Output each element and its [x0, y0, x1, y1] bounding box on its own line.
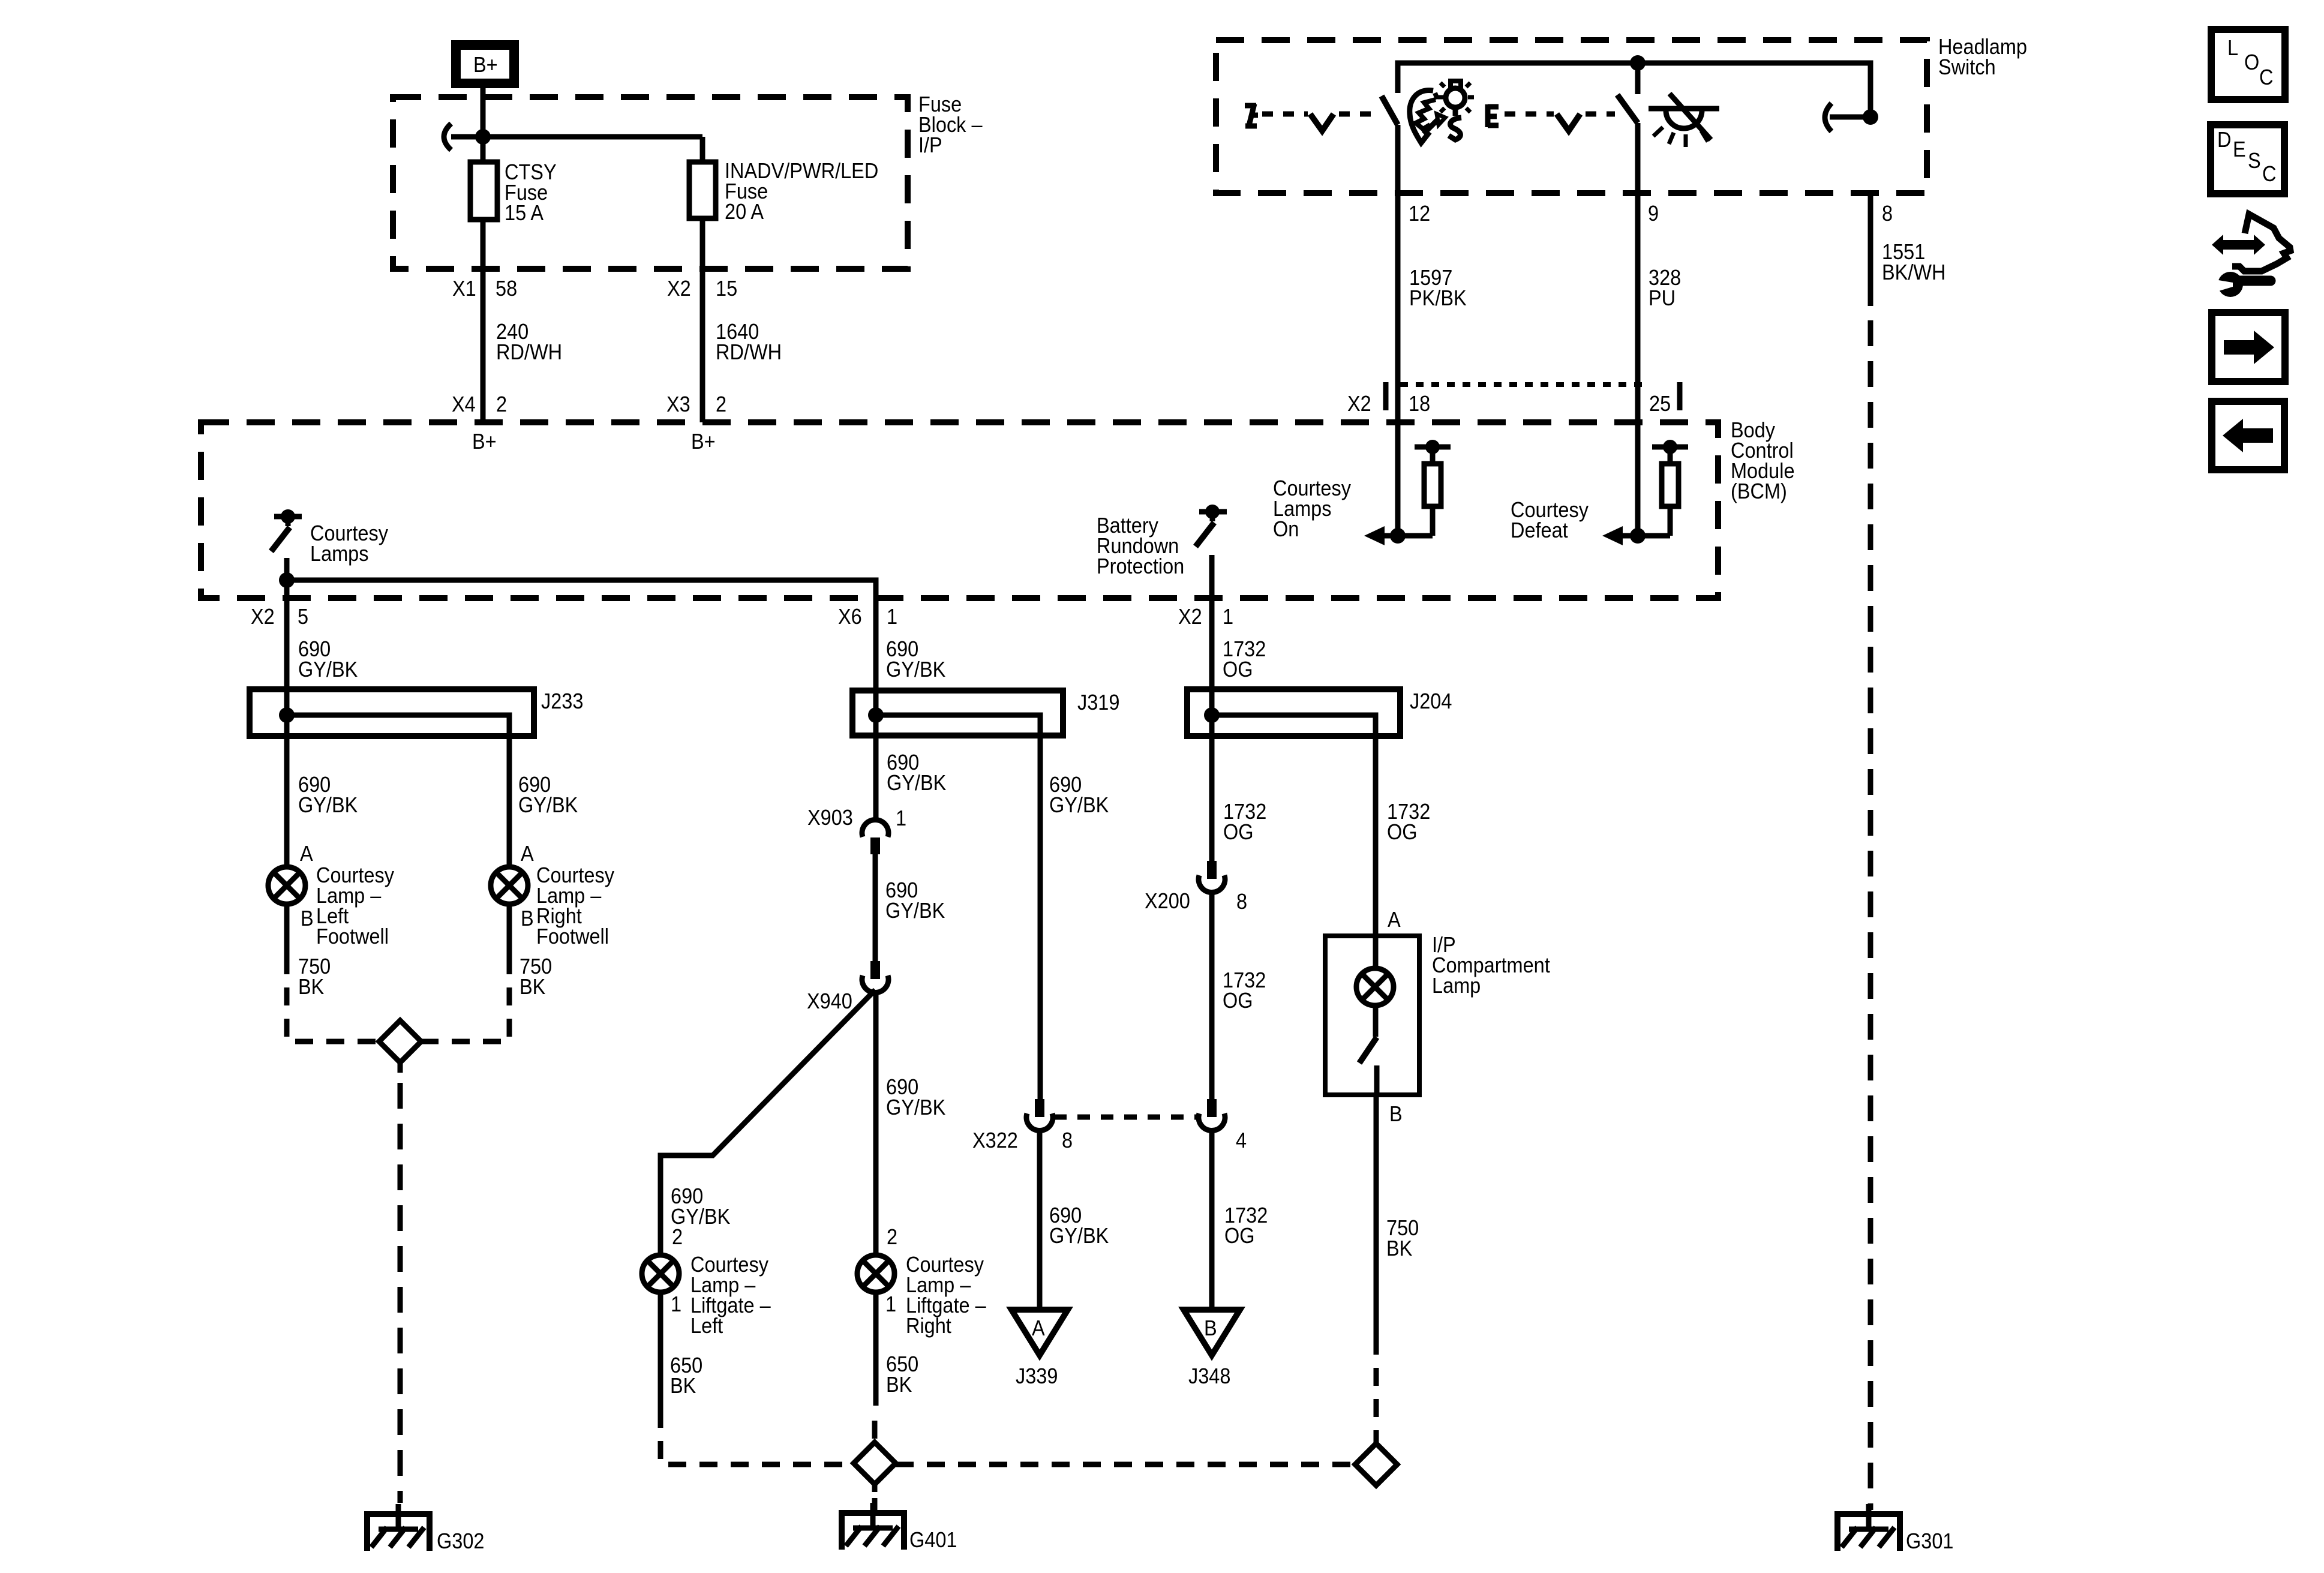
svg-text:1: 1: [1223, 605, 1233, 629]
pin B left footwell: [301, 906, 314, 930]
component box: Fuse Block - I/P: [393, 92, 983, 269]
inline connector X322 pin 8: [972, 1099, 1073, 1152]
wire X322-4 to J348 triangle: [1209, 1128, 1215, 1310]
svg-text:B: B: [301, 906, 314, 930]
pin B right footwell: [521, 906, 534, 930]
pin 8: [1882, 202, 1893, 226]
svg-text:E: E: [2233, 137, 2246, 161]
wire X2-1 to J204: [1209, 598, 1215, 689]
wire hook to pin 8 leg: [1830, 115, 1870, 120]
pin 1 left liftgate: [671, 1292, 681, 1316]
wire right liftgate ground lead: [873, 1292, 879, 1406]
wire X2-5 to J233: [284, 598, 290, 689]
svg-text:BK: BK: [298, 975, 324, 999]
svg-text:A: A: [1032, 1316, 1045, 1340]
wire label 1640 RD/WH: [716, 320, 782, 364]
fuse block internal bus wire: [451, 137, 702, 162]
wire fuse F2 to X2-15: [700, 218, 705, 422]
wire label 690 GY/BK left liftgate: [671, 1184, 730, 1229]
off-page triangle A: [1011, 1310, 1068, 1355]
svg-text:BK/WH: BK/WH: [1882, 260, 1945, 284]
switch position glyph OFF: [1245, 104, 1258, 128]
svg-text:GY/BK: GY/BK: [298, 793, 358, 817]
wire label 328 PU: [1649, 266, 1681, 310]
switch blade pin 12: [1382, 96, 1398, 125]
wire B+ to fuse block: [481, 86, 486, 162]
power feed B+ terminal: [456, 45, 514, 83]
fuse F1 CTSY 15 A: [470, 160, 557, 225]
wire compartment lamp ground lead: [1374, 1095, 1379, 1337]
svg-text:8: 8: [1236, 890, 1247, 914]
label Courtesy Lamps On: [1273, 476, 1352, 541]
pin X2 1: [1178, 605, 1233, 629]
wire left footwell lamp ground lead: [284, 904, 290, 956]
wire label 690 GY/BK right liftgate: [886, 1075, 945, 1119]
svg-text:2: 2: [496, 392, 507, 416]
svg-text:BK: BK: [1386, 1236, 1412, 1260]
svg-text:GY/BK: GY/BK: [885, 899, 945, 923]
dashed ground harness right footwell: [421, 956, 509, 1041]
wire pin 25 into BCM: [1635, 422, 1641, 536]
wire J319 right branch down: [1038, 736, 1043, 1099]
svg-text:X6: X6: [838, 605, 862, 629]
terminal hook pin 8: [1825, 103, 1831, 131]
svg-text:X4: X4: [452, 392, 476, 416]
svg-text:OG: OG: [1223, 658, 1253, 682]
svg-text:2: 2: [672, 1225, 683, 1249]
wire X903 to X940: [873, 854, 878, 961]
instrument illumination icon: [1410, 81, 1474, 143]
svg-text:(BCM): (BCM): [1731, 479, 1787, 503]
wire J204 right branch to compartment lamp: [1373, 736, 1379, 936]
fuse F2 INADV/PWR/LED 20 A: [689, 159, 878, 224]
svg-text:9: 9: [1648, 202, 1659, 226]
wire J233 to right footwell lamp: [507, 736, 512, 867]
pin B compartment lamp: [1389, 1102, 1403, 1126]
svg-text:X2: X2: [251, 605, 275, 629]
svg-text:G401: G401: [909, 1528, 957, 1552]
BCM driver switch Battery Rundown Protection: [1196, 505, 1227, 598]
splice J319: [852, 691, 1119, 736]
dashed ground wire to G302: [398, 1062, 403, 1503]
svg-text:12: 12: [1409, 202, 1430, 226]
wire pin 12 out of switch: [1395, 125, 1401, 422]
label Battery Rundown Protection: [1097, 514, 1184, 578]
svg-text:1: 1: [671, 1292, 681, 1316]
net label B+ at X4: [472, 430, 497, 454]
pin 1 right liftgate: [885, 1292, 896, 1316]
svg-text:X2: X2: [1347, 392, 1371, 416]
dashed connector link X322: [1054, 1115, 1198, 1120]
splice J204: [1187, 689, 1452, 736]
svg-text:C: C: [2259, 65, 2273, 89]
net label B+ at X3: [691, 430, 716, 454]
svg-text:C: C: [2262, 162, 2276, 186]
node: junction Courtesy Lamps output: [279, 572, 295, 588]
component box: Headlamp Switch: [1216, 35, 2027, 193]
sidebar previous-page button: [2212, 401, 2284, 470]
svg-text:X1: X1: [452, 277, 476, 301]
svg-text:X200: X200: [1145, 889, 1190, 913]
svg-text:20 A: 20 A: [725, 200, 764, 224]
wire right footwell lamp ground lead: [507, 904, 512, 956]
inline connector X322 pin 4: [1199, 1099, 1247, 1152]
splice diamond G401 harness: [854, 1442, 896, 1484]
wire fuse F1 to X1-58: [481, 220, 486, 422]
svg-text:4: 4: [1236, 1128, 1247, 1152]
svg-text:On: On: [1273, 517, 1299, 541]
wire X322-8 to J339 triangle: [1037, 1128, 1043, 1310]
svg-text:RD/WH: RD/WH: [496, 340, 562, 364]
svg-text:O: O: [2244, 50, 2259, 74]
svg-text:L: L: [2227, 36, 2238, 60]
svg-text:Left: Left: [690, 1314, 723, 1338]
svg-text:I/P: I/P: [918, 133, 942, 157]
dome lamp defeat icon: [1649, 94, 1719, 147]
connector X2 bracket at BCM: [1347, 382, 1680, 416]
pin A left footwell: [300, 842, 313, 866]
node: junction pin 25: [1630, 528, 1646, 544]
svg-text:GY/BK: GY/BK: [886, 658, 945, 682]
svg-text:B+: B+: [473, 53, 498, 77]
pin X3 2: [666, 392, 726, 416]
wire label 690 GY/BK between connectors: [885, 878, 945, 923]
label Courtesy Defeat: [1511, 498, 1589, 542]
pin X2 15: [667, 277, 737, 301]
svg-text:GY/BK: GY/BK: [887, 771, 946, 795]
svg-text:8: 8: [1882, 202, 1893, 226]
wire label 690 GY/BK to J339: [1049, 1203, 1109, 1248]
svg-text:Footwell: Footwell: [316, 924, 389, 948]
node: junction pin 8 leg: [1863, 109, 1878, 125]
svg-text:25: 25: [1649, 392, 1671, 416]
dashed wire into G401 diamond: [872, 1421, 878, 1442]
wire J319 to X903: [873, 736, 879, 822]
wire label 690 GY/BK right: [518, 773, 578, 817]
ground G302: [364, 1504, 484, 1553]
wire pin 18 into BCM: [1395, 422, 1401, 536]
wire label 690 GY/BK left: [298, 773, 358, 817]
svg-text:X322: X322: [972, 1128, 1018, 1152]
pin 12: [1409, 202, 1430, 226]
svg-text:X940: X940: [807, 989, 852, 1013]
compartment lamp internals: [1356, 936, 1394, 1095]
svg-text:B: B: [1389, 1102, 1403, 1126]
svg-text:G302: G302: [437, 1529, 484, 1553]
svg-text:8: 8: [1062, 1128, 1073, 1152]
selector dashed chain 2: [1586, 112, 1615, 117]
svg-text:A: A: [521, 842, 534, 866]
selector dashed chain right: [1505, 112, 1554, 117]
signal arrow Courtesy Defeat: [1602, 526, 1623, 545]
BCM pullup resistor at pin 25: [1652, 440, 1688, 536]
pin 2 right liftgate: [887, 1225, 897, 1249]
wire internal pin 18 to comparator: [1382, 533, 1433, 539]
BCM pullup resistor at pin 18: [1415, 440, 1451, 536]
wire J204 to X200: [1209, 736, 1215, 861]
svg-text:X2: X2: [1178, 605, 1202, 629]
svg-text:2: 2: [887, 1225, 897, 1249]
svg-text:Footwell: Footwell: [536, 924, 609, 948]
svg-text:J339: J339: [1016, 1364, 1058, 1388]
svg-text:OG: OG: [1224, 1224, 1255, 1248]
svg-text:B: B: [1204, 1316, 1217, 1340]
svg-text:5: 5: [298, 605, 308, 629]
wire label 1732 OG to J348: [1224, 1203, 1268, 1248]
svg-text:PU: PU: [1649, 286, 1676, 310]
wire label 750 BK right: [520, 954, 552, 999]
wire label 1551 BK/WH: [1882, 240, 1945, 284]
wire label 690 GY/BK: [298, 637, 358, 682]
wire label 1732 OG below X200: [1223, 968, 1266, 1013]
svg-text:A: A: [1388, 908, 1401, 932]
svg-text:J233: J233: [541, 689, 583, 713]
signal arrow Courtesy Lamps On: [1364, 526, 1385, 545]
net label J339: [1016, 1364, 1058, 1388]
ground G301: [1834, 1504, 1953, 1553]
svg-text:G301: G301: [1906, 1529, 1953, 1553]
svg-text:A: A: [300, 842, 313, 866]
pin X4 2: [452, 392, 507, 416]
wire label 650 BK right: [886, 1352, 918, 1397]
lamp: Courtesy Lamp - Liftgate - Left: [642, 1253, 771, 1338]
component box: I/P Compartment Lamp: [1325, 933, 1550, 1095]
pin 9: [1648, 202, 1659, 226]
svg-text:GY/BK: GY/BK: [1049, 1224, 1109, 1248]
svg-text:GY/BK: GY/BK: [886, 1095, 945, 1119]
component box: Body Control Module (BCM): [201, 418, 1795, 598]
switch blade pin 9: [1617, 95, 1638, 123]
lamp: Courtesy Lamp - Right Footwell: [491, 863, 615, 948]
svg-text:1: 1: [885, 1292, 896, 1316]
wire label 650 BK left: [670, 1353, 702, 1398]
svg-text:GY/BK: GY/BK: [518, 793, 578, 817]
svg-text:1: 1: [896, 806, 906, 830]
BCM driver switch Courtesy Lamps: [271, 509, 302, 598]
svg-text:OG: OG: [1387, 820, 1418, 844]
lamp: Courtesy Lamp - Liftgate - Right: [857, 1253, 986, 1338]
svg-text:15 A: 15 A: [505, 201, 544, 225]
svg-text:J319: J319: [1077, 691, 1119, 715]
pin 2 left liftgate: [672, 1225, 683, 1249]
splice diamond right harness: [1355, 1443, 1397, 1485]
inline connector X200 pin 8: [1145, 861, 1247, 914]
svg-text:Defeat: Defeat: [1511, 518, 1568, 542]
lamp: Courtesy Lamp - Left Footwell: [268, 863, 395, 948]
node: bus junction at pin 9 leg: [1630, 55, 1646, 71]
wire label 690 GY/BK branch: [1049, 773, 1109, 817]
wire pin 8 solid segment: [1868, 193, 1873, 306]
switch position glyph E: [1488, 104, 1499, 127]
svg-text:Protection: Protection: [1097, 554, 1184, 578]
wire internal pin 25 to comparator: [1620, 533, 1670, 539]
selector check glyph: [1310, 114, 1334, 131]
wire label 240 RD/WH: [496, 320, 562, 364]
pin X2 5: [251, 605, 308, 629]
inline connector X903 pin 1: [807, 806, 906, 854]
svg-text:B+: B+: [472, 430, 497, 454]
wire label 690 GY/BK X6: [886, 637, 945, 682]
wire left liftgate ground lead: [658, 1292, 663, 1410]
svg-text:X3: X3: [666, 392, 690, 416]
sidebar next-page button: [2212, 313, 2285, 382]
label Courtesy Lamps: [310, 521, 389, 566]
wire label 1732 OG X2-1: [1223, 637, 1266, 682]
svg-text:J204: J204: [1410, 689, 1452, 713]
svg-text:RD/WH: RD/WH: [716, 340, 782, 364]
wire J233 to left footwell lamp: [284, 736, 290, 867]
svg-text:PK/BK: PK/BK: [1409, 286, 1467, 310]
svg-text:X903: X903: [807, 806, 853, 830]
svg-text:OG: OG: [1223, 989, 1253, 1013]
pin A right footwell: [521, 842, 534, 866]
selector check glyph 2: [1557, 114, 1580, 131]
pin X6 1: [838, 605, 897, 629]
dashed ground bus to right diamond: [896, 1462, 1355, 1467]
node: junction pin 18: [1390, 528, 1406, 544]
headlamp switch internal bus: [1398, 63, 1870, 117]
svg-text:Right: Right: [906, 1314, 951, 1338]
dashed ground wire to G401: [872, 1484, 878, 1510]
dashed ground harness left footwell: [287, 956, 379, 1041]
sidebar LOC button: [2211, 29, 2285, 100]
svg-text:Switch: Switch: [1938, 55, 1996, 79]
pin A compartment lamp: [1388, 908, 1401, 932]
sidebar DESC button: [2211, 125, 2284, 194]
terminal hook on bus: [444, 124, 451, 150]
selector dashed chain: [1339, 112, 1379, 117]
wire X6-1 to J319: [873, 598, 879, 691]
wire pin 9 out of switch: [1635, 123, 1641, 422]
svg-text:18: 18: [1409, 392, 1430, 416]
off-page triangle B: [1184, 1310, 1240, 1355]
svg-text:J348: J348: [1188, 1364, 1230, 1388]
wire branch X940 to left liftgate lamp: [660, 990, 875, 1255]
ground G401: [839, 1503, 957, 1552]
wire label 750 BK left: [298, 954, 331, 999]
svg-text:BK: BK: [520, 975, 545, 999]
svg-text:X2: X2: [667, 277, 691, 301]
inline connector X940: [807, 961, 888, 1013]
svg-text:1: 1: [887, 605, 897, 629]
svg-text:GY/BK: GY/BK: [298, 658, 358, 682]
wire label 1732 OG lamp branch: [1387, 800, 1430, 844]
svg-text:D: D: [2217, 128, 2231, 152]
splice J233: [250, 689, 583, 736]
selector dashed chain left: [1262, 112, 1308, 117]
wire bus to pin 9 contact: [1635, 63, 1641, 94]
dashed wire into right diamond: [1374, 1337, 1379, 1443]
svg-text:BK: BK: [886, 1373, 912, 1397]
sidebar vehicle navigation icon: [2212, 214, 2290, 297]
svg-text:58: 58: [496, 277, 517, 301]
BCM internal wire to X6 output: [287, 580, 876, 598]
wire pin 8 dashed run to G301: [1868, 320, 1873, 1510]
wire label 690 GY/BK above X903: [887, 751, 946, 795]
svg-text:B+: B+: [691, 430, 716, 454]
svg-text:GY/BK: GY/BK: [1049, 793, 1109, 817]
svg-text:15: 15: [716, 277, 737, 301]
svg-text:OG: OG: [1223, 820, 1254, 844]
svg-text:2: 2: [716, 392, 726, 416]
wire X940 to right liftgate lamp: [873, 990, 879, 1255]
svg-text:B: B: [521, 906, 534, 930]
svg-text:Lamp: Lamp: [1432, 974, 1481, 998]
wire label 750 BK lamp: [1386, 1216, 1419, 1260]
svg-text:Lamps: Lamps: [310, 542, 369, 566]
svg-text:S: S: [2248, 149, 2261, 173]
splice diamond G302 harness: [379, 1020, 421, 1062]
dashed ground harness left liftgate: [660, 1410, 854, 1464]
wire X200 to X322-4: [1209, 890, 1215, 1099]
net label J348: [1188, 1364, 1230, 1388]
node: bus junction: [475, 129, 491, 145]
pin X1 58: [452, 277, 517, 301]
wire label 1732 OG above X200: [1223, 800, 1266, 844]
svg-text:BK: BK: [670, 1374, 696, 1398]
wire label 1597 PK/BK: [1409, 266, 1467, 310]
